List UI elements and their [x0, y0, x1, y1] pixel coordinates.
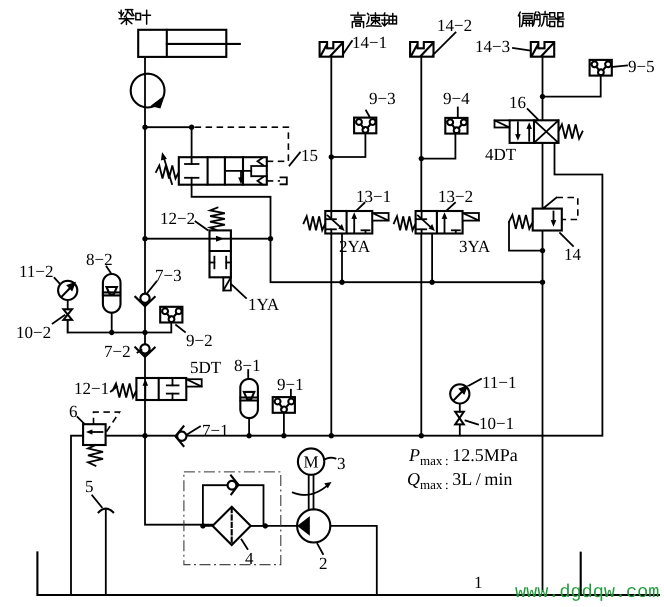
label 偏 (yaw char1)	[518, 12, 533, 27]
wire main vertical from cylinder to bus	[144, 57, 146, 436]
wire 14-1 line below valve	[330, 234, 332, 436]
check valve 7-3 label line	[148, 282, 157, 293]
svg-text:www.dgdqw.com: www.dgdqw.com	[515, 582, 659, 603]
wire pump suction loop	[145, 436, 213, 525]
accumulator 8-2	[103, 274, 121, 313]
solenoid 1YA	[223, 277, 231, 290]
wire 14-1 drop line	[330, 57, 332, 211]
shut-off valve 10-2	[63, 309, 72, 320]
label 轴 (speed char3)	[381, 13, 396, 26]
check valve 7-3	[135, 294, 154, 307]
wire 9-5 branch	[543, 75, 601, 97]
switch 9-3 label line	[366, 111, 370, 118]
node J7	[339, 280, 344, 285]
wire bus 12-2	[145, 238, 271, 240]
svg-text:9−2: 9−2	[186, 331, 213, 350]
solenoid 1YA label line	[231, 284, 246, 298]
reducing valve 14 arrow	[551, 212, 557, 227]
switch 9-2 label line	[176, 325, 185, 332]
node J20	[263, 523, 268, 528]
brake 14-2 label line	[433, 33, 456, 56]
valve 13-1 label line	[356, 203, 365, 211]
solenoid 5DT	[186, 379, 201, 386]
pressure switch 9-1	[273, 397, 295, 413]
valve 13-2 label line	[446, 203, 455, 211]
wire valve14 down to tank	[542, 231, 544, 592]
svg-text:6: 6	[69, 402, 78, 421]
svg-text:12−2: 12−2	[160, 209, 195, 228]
filter 4 diamond	[213, 507, 251, 545]
svg-text:12−1: 12−1	[74, 379, 109, 398]
valve 15 cell1 blocked ports	[185, 157, 199, 185]
valve 15 pilot dashed lines	[192, 127, 289, 181]
svg-text:7−1: 7−1	[202, 421, 229, 440]
svg-text:8−1: 8−1	[234, 356, 261, 375]
pressure switch 9-4	[445, 118, 467, 134]
svg-text:9−5: 9−5	[628, 57, 655, 76]
electric motor 3	[298, 448, 324, 474]
gauge 11-2 label line	[55, 278, 60, 283]
wire accumulator 8-2 stem	[111, 313, 113, 333]
wire 14-3 drop line	[542, 57, 544, 120]
svg-text:4DT: 4DT	[485, 145, 517, 164]
svg-text:Pmax : 12.5MPa: Pmax : 12.5MPa	[408, 445, 518, 468]
filter 4 label line	[242, 540, 248, 550]
svg-text:8−2: 8−2	[86, 250, 113, 269]
wire gauge 11-1 stem	[459, 403, 461, 435]
wire 13-1 out port	[341, 234, 343, 283]
check valve 7-1	[175, 426, 186, 446]
svg-text:14−1: 14−1	[352, 33, 387, 52]
svg-text:13−2: 13−2	[438, 187, 473, 206]
suction strainer 5	[99, 509, 114, 513]
svg-text:1: 1	[474, 573, 483, 592]
reducing valve 14 pilot	[543, 198, 557, 209]
valve 15 pilot arrows	[258, 158, 267, 185]
valve 12-1 label line	[111, 387, 117, 392]
accumulator 8-1 label line	[247, 370, 249, 377]
brake 14-2	[410, 42, 433, 57]
svg-text:11−2: 11−2	[19, 262, 53, 281]
node J4	[142, 236, 147, 241]
valve 12-2 flow arrow	[216, 236, 225, 242]
pressure switch 9-2	[160, 307, 182, 323]
filter 4 enclosure dash-dot box	[184, 472, 281, 565]
svg-text:15: 15	[301, 146, 318, 165]
svg-text:9−4: 9−4	[443, 89, 470, 108]
label 高 (speed char1)	[351, 12, 365, 27]
wire filter to pump	[251, 525, 298, 527]
suction 5 label line	[92, 495, 102, 507]
cylinder 桨叶 actuator	[138, 30, 240, 57]
valve 15 body	[179, 157, 267, 185]
valve 15 cell3 flow arrow	[225, 171, 251, 185]
valve 12-1 up arrow	[143, 379, 149, 400]
pump 2	[297, 509, 330, 542]
valve 13-2 (3YA)	[416, 211, 463, 234]
svg-text:9−1: 9−1	[277, 375, 304, 394]
node J5	[109, 330, 114, 335]
svg-text:4: 4	[245, 549, 254, 568]
wire valve14 spring drain	[509, 222, 543, 251]
switch 9-5 label line	[613, 66, 628, 67]
svg-text:2: 2	[319, 554, 328, 573]
wire accumulator 8-1 stem	[248, 418, 250, 436]
label 速 (speed char2)	[367, 13, 382, 27]
wire filter left stub	[203, 525, 265, 527]
wire 13-2 out port	[431, 234, 433, 283]
switch 9-4 label line	[457, 108, 459, 118]
rotation arrow	[293, 482, 332, 495]
wire switch 9-1 stem	[283, 413, 285, 436]
wire left gauge branch	[68, 320, 172, 333]
relief valve 6 arrow	[86, 429, 103, 434]
valve 15 spring adjust arrow	[161, 152, 172, 184]
wire 9-4 branch	[421, 134, 455, 159]
accumulator 8-1	[240, 379, 258, 418]
reducing valve 14 label line	[560, 233, 573, 246]
node J9	[329, 154, 334, 159]
svg-text:M: M	[304, 453, 319, 472]
relief valve 6 pilot dashes	[94, 412, 120, 433]
relief valve 6 spring	[88, 445, 103, 466]
svg-text:7−3: 7−3	[155, 266, 182, 285]
valve 16 label line	[528, 109, 538, 119]
node J18	[281, 433, 286, 438]
wire node line cylinder branch	[145, 127, 192, 157]
shut-off valve 10-1	[455, 412, 464, 425]
pump 2 label line	[318, 544, 324, 554]
motor shaft	[309, 475, 314, 510]
relief valve 6 body	[83, 424, 106, 445]
label 桨 (blade char1)	[119, 10, 134, 25]
bypass check valve	[228, 476, 239, 495]
svg-text:1YA: 1YA	[248, 295, 280, 314]
svg-text:7−2: 7−2	[104, 342, 131, 361]
valve 15 spring	[156, 166, 179, 179]
svg-text:14: 14	[564, 245, 582, 264]
wire valve16 to valve14	[542, 143, 544, 209]
brake 14-3 label line	[513, 48, 530, 51]
valve 12-2 spring	[210, 208, 225, 231]
node J12	[419, 156, 424, 161]
pressure gauge 11-2	[58, 281, 77, 300]
valve 15 right notch	[251, 166, 267, 176]
pressure switch 9-3	[354, 118, 376, 134]
wire 10-2 gauge stem	[67, 300, 69, 333]
node J11	[419, 433, 424, 438]
svg-text:3: 3	[337, 454, 346, 473]
brake 14-1	[320, 42, 343, 57]
valve 15 label line	[290, 153, 301, 166]
node J6	[142, 330, 147, 335]
valve 12-1 spring	[113, 384, 137, 398]
valve 13-1 (2YA)	[325, 211, 372, 234]
svg-text:5: 5	[85, 477, 94, 496]
valve 16 spring	[559, 124, 583, 138]
tank 1	[37, 552, 659, 595]
valve 16 arrows	[515, 122, 532, 140]
svg-text:13−1: 13−1	[356, 187, 391, 206]
valve 12-2 blocked ports	[210, 257, 231, 269]
valve 12-1 body	[136, 378, 186, 400]
rotary actuator circle	[131, 74, 165, 108]
wire valve16 right port to right rail	[106, 143, 603, 436]
reducing valve 14 spring	[509, 215, 533, 229]
valve 10-2 label line	[53, 315, 65, 323]
motor 3 label line	[325, 458, 336, 460]
node J2	[189, 125, 194, 130]
accumulator 8-2 label line	[107, 267, 111, 273]
node J1	[142, 125, 147, 130]
svg-text:16: 16	[509, 93, 526, 112]
svg-text:10−2: 10−2	[16, 323, 51, 342]
wire valve15 bottom to node	[192, 185, 543, 283]
pressure gauge 11-1	[450, 384, 469, 403]
reducing valve 14 body	[533, 209, 562, 231]
solenoid 4DT	[495, 120, 510, 127]
wire suction pipe 5	[105, 510, 107, 595]
valve 12-1 blocked ports	[167, 378, 179, 400]
valve 13-2 spring	[394, 216, 416, 230]
wire 14-2 drop line	[420, 57, 422, 211]
node J13	[540, 94, 545, 99]
node J3	[268, 236, 273, 241]
wire 9-3 branch	[331, 133, 365, 157]
svg-text:2YA: 2YA	[339, 237, 371, 256]
node J17	[246, 433, 251, 438]
valve 12-2 label line	[196, 222, 208, 231]
label 航 (yaw char2)	[533, 11, 548, 26]
svg-text:Qmax : 3L / min: Qmax : 3L / min	[407, 469, 512, 492]
node J15	[540, 280, 545, 285]
svg-text:5DT: 5DT	[190, 358, 222, 377]
node J8	[329, 433, 334, 438]
wire 14-2 line below valve	[420, 234, 422, 436]
valve 12-2 body	[210, 230, 231, 277]
svg-text:3YA: 3YA	[459, 237, 491, 256]
wire bypass loop	[203, 485, 264, 526]
check valve 7-2	[135, 344, 154, 357]
valve 16 body	[510, 120, 559, 143]
valve 13-1 spring	[304, 216, 326, 230]
switch 9-1 label line	[290, 390, 292, 397]
pressure switch 9-5	[590, 60, 612, 76]
wire valve6 drain	[71, 436, 83, 595]
node J14	[540, 248, 545, 253]
svg-text:14−3: 14−3	[475, 37, 510, 56]
brake 14-3	[531, 42, 554, 57]
svg-text:10−1: 10−1	[479, 414, 514, 433]
label 叶 (blade char2)	[136, 10, 151, 24]
svg-text:11−1: 11−1	[482, 373, 516, 392]
svg-text:14−2: 14−2	[437, 16, 472, 35]
gauge 11-1 label line	[469, 379, 481, 386]
node J16	[142, 433, 147, 438]
node J19	[200, 523, 205, 528]
label 器 (yaw char3)	[549, 13, 564, 27]
check valve 7-1 label line	[187, 427, 200, 435]
relief valve 6 label line	[78, 417, 85, 424]
svg-text:9−3: 9−3	[369, 89, 396, 108]
valve 15 pilot plug bracket	[281, 177, 287, 184]
valve 16 crossed cell	[534, 120, 559, 143]
wire pump to tank downpipe	[330, 526, 377, 595]
brake 14-1 label line	[344, 41, 353, 54]
node J10	[429, 280, 434, 285]
valve 10-1 label line	[466, 421, 479, 425]
